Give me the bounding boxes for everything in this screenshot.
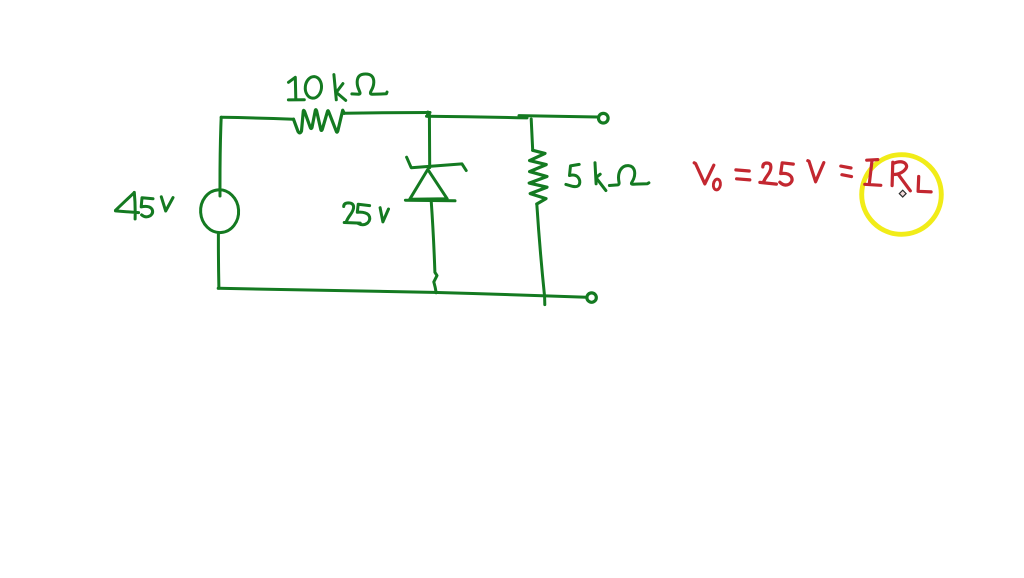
wire node A to 5k tap node B — [427, 116, 528, 118]
equation red: equals 2 — [841, 166, 852, 177]
label 10 kOhm : digit 0 — [304, 76, 322, 99]
wire bottom horizontal — [218, 288, 586, 297]
terminal top-right — [599, 113, 609, 123]
equation red: V — [694, 163, 714, 184]
label 5 kOhm : digit 5 — [566, 164, 580, 186]
wire node B to positive output terminal — [519, 116, 598, 117]
wire zener anode down to bottom wire — [431, 201, 437, 293]
label 25V : letter V — [380, 208, 388, 222]
wire source bottom to bottom-left corner — [217, 233, 221, 289]
label 10 kOhm : omega — [352, 74, 387, 94]
zener diode D1 anode bar — [405, 199, 455, 203]
label 5 kOhm : omega — [609, 166, 649, 186]
equation red: digit 5 — [780, 163, 794, 185]
equation red: digit 2 — [760, 163, 777, 184]
zener diode D1 cathode bar with bent ends — [407, 157, 467, 170]
wire R1 to node A — [344, 111, 430, 115]
equation red: subscript L — [918, 177, 931, 192]
equation red: V — [808, 161, 824, 182]
label 45V : digit 4 — [116, 192, 139, 219]
wire left vertical down to source — [220, 117, 221, 196]
zener diode D1 triangle — [410, 169, 448, 199]
mouse cursor diamond — [899, 190, 906, 197]
label 25V : digit 5 — [357, 204, 369, 224]
voltage source VS — [199, 189, 240, 234]
label 45V : letter V — [161, 197, 173, 211]
equation red: letter I — [865, 160, 881, 186]
label 10 kOhm : digit 1 — [288, 77, 304, 100]
label 25V : digit 2 — [344, 203, 361, 223]
equation red: letter R — [892, 162, 910, 191]
equation red: equals — [736, 170, 750, 180]
wire R2 to bottom wire — [537, 204, 545, 305]
label 10 kOhm : letter k — [334, 75, 346, 101]
terminal bottom-right — [587, 293, 596, 302]
wire 5k branch from node B down — [531, 119, 533, 150]
equation red: subscript o — [713, 179, 721, 191]
resistor R2 vertical zigzag — [529, 150, 547, 204]
label 45V : digit 5 — [141, 198, 153, 217]
wire top-left horizontal to resistor R1 — [221, 117, 293, 119]
label 5 kOhm : letter k — [595, 163, 606, 191]
node A junction — [428, 113, 429, 116]
yellow highlight circle — [862, 155, 942, 235]
wire zener branch from node A down — [428, 116, 431, 168]
resistor R1 zigzag — [294, 110, 345, 133]
